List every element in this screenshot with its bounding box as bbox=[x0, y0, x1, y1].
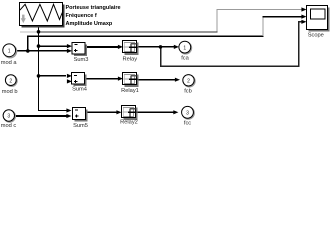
svg-text:2: 2 bbox=[187, 79, 190, 85]
wire: faint artifact left of carrier junction bbox=[20, 31, 37, 33]
svg-text:Amplitude Umaxp: Amplitude Umaxp bbox=[66, 21, 113, 27]
arrowhead: scope input 2 bbox=[301, 15, 306, 19]
wire: mod a branch into scope input 2 bbox=[263, 16, 303, 18]
svg-text:fcc: fcc bbox=[184, 120, 191, 126]
output port fcc bbox=[182, 106, 195, 119]
svg-text:Sum3: Sum3 bbox=[74, 57, 89, 63]
wire: Relay output to fca bbox=[139, 46, 175, 48]
input port mod a bbox=[3, 44, 17, 58]
wire: carrier branch to Sum4 minus input bbox=[39, 75, 67, 77]
svg-text:3: 3 bbox=[186, 111, 189, 117]
junction: carrier row2 bbox=[37, 74, 41, 78]
wire: Sum3 output to Relay bbox=[86, 46, 118, 48]
arrowhead: Sum4 plus (unconnected) bbox=[67, 79, 72, 83]
Relay1 block bbox=[123, 73, 139, 88]
svg-text:mod b: mod b bbox=[2, 89, 18, 95]
wire: branch to scope input 3 bbox=[161, 22, 303, 66]
wire: carrier to scope input 1, light segment bbox=[217, 10, 303, 32]
junction: mod a branch bbox=[26, 49, 30, 53]
svg-text:Relay2: Relay2 bbox=[120, 119, 138, 125]
svg-text:Porteuse triangulaire: Porteuse triangulaire bbox=[66, 5, 121, 11]
arrowhead: Relay input bbox=[118, 45, 123, 49]
svg-text:mod c: mod c bbox=[1, 123, 17, 129]
wire: mod c to Sum5 plus input bbox=[15, 115, 67, 117]
wire: mod a branch to scope input 2 bbox=[28, 36, 264, 51]
arrowhead: fcc input bbox=[173, 110, 178, 114]
svg-text:Sum4: Sum4 bbox=[72, 87, 87, 93]
arrowhead: Sum3 plus bbox=[67, 49, 72, 53]
wire: Relay1 output to fcb bbox=[139, 79, 176, 81]
Sum5 block bbox=[73, 108, 88, 122]
svg-text:fcb: fcb bbox=[184, 89, 192, 95]
svg-text:3: 3 bbox=[7, 114, 10, 120]
Scope block bbox=[307, 6, 330, 32]
junction: fca branch bbox=[159, 45, 163, 49]
svg-text:Relay: Relay bbox=[123, 56, 138, 62]
wire: Sum5 output to Relay2 bbox=[87, 111, 118, 113]
svg-text:Scope: Scope bbox=[308, 32, 324, 38]
svg-text:1: 1 bbox=[8, 49, 11, 55]
wire: carrier to scope input 1, dark segment bbox=[39, 31, 218, 33]
junction: carrier/scope1 bbox=[37, 30, 41, 34]
wire: Sum4 output to Relay1 bbox=[86, 78, 119, 80]
arrowhead: Relay1 input bbox=[118, 77, 123, 81]
wire: carrier vertical trunk bbox=[38, 26, 40, 111]
svg-text:fca: fca bbox=[181, 56, 189, 62]
output port fcb bbox=[183, 75, 195, 87]
output port fca bbox=[179, 41, 192, 54]
junction: carrier row1 bbox=[37, 44, 41, 48]
arrowhead: scope input 3 bbox=[301, 20, 306, 24]
label: carrier description bbox=[66, 5, 121, 27]
input port mod c bbox=[3, 110, 15, 122]
arrowhead: scope input 1 bbox=[301, 7, 306, 11]
arrowhead: Sum3 minus bbox=[67, 44, 72, 48]
wire: carrier corner into Sum5 minus input bbox=[38, 110, 67, 112]
svg-text:mod a: mod a bbox=[1, 60, 18, 66]
Sum3 block bbox=[72, 43, 87, 57]
svg-text:Sum5: Sum5 bbox=[73, 123, 88, 129]
arrowhead: fca input bbox=[174, 45, 179, 49]
arrowhead: Sum4 minus bbox=[67, 74, 72, 78]
wire: mod a branch vertical riser bbox=[262, 17, 264, 37]
svg-text:Fréquence f: Fréquence f bbox=[66, 13, 97, 19]
Relay block bbox=[123, 41, 139, 56]
wire: mod a to Sum3 plus input bbox=[15, 50, 67, 52]
svg-text:2: 2 bbox=[9, 78, 12, 84]
arrowhead: Sum5 minus bbox=[66, 108, 71, 112]
wire: carrier branch to Sum3 minus input bbox=[39, 45, 68, 47]
arrowhead: Relay2 input bbox=[116, 110, 121, 114]
input port mod b bbox=[5, 75, 17, 87]
Sum4 block bbox=[72, 73, 87, 87]
wire: Relay2 output to fcc bbox=[137, 111, 174, 113]
Relay2 block bbox=[122, 106, 138, 121]
arrowhead: fcb input bbox=[175, 78, 180, 82]
arrowhead: Sum5 plus bbox=[66, 114, 71, 118]
carrier block: Porteuse triangulaire (signal generator) bbox=[20, 3, 65, 28]
svg-text:1: 1 bbox=[183, 45, 186, 51]
svg-text:Relay1: Relay1 bbox=[121, 88, 139, 94]
